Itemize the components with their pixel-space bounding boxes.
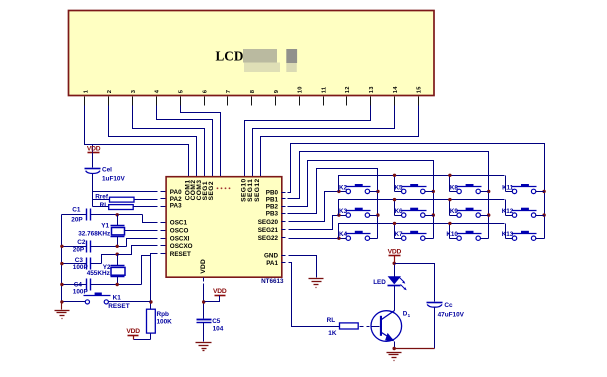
resistor RL 1K (base) <box>327 317 380 337</box>
wire LCD pin5 to IC SEG2 <box>181 106 221 177</box>
wire C1 to OSC1 <box>143 215 167 223</box>
op IC U1 NT6613 body <box>166 177 282 278</box>
wire LCD pin13 to IC SEG10 <box>245 106 371 177</box>
node RESET K1 junction <box>149 300 152 303</box>
svg-text:C3: C3 <box>75 257 84 264</box>
node OSCXO junction <box>116 253 119 256</box>
push button K3 <box>339 208 370 218</box>
capacitor C1 20P <box>62 207 143 224</box>
node Y1 bottom junction <box>116 245 119 248</box>
wire collector to LED <box>394 286 396 311</box>
transistor D1 <box>371 311 411 349</box>
wire SEG20 to row1 <box>282 192 347 222</box>
push button K9 <box>450 208 482 218</box>
svg-text:2: 2 <box>107 90 113 93</box>
node C4 Y2 junction <box>116 283 119 286</box>
LCD display module LCD1 <box>69 11 435 96</box>
svg-text:C2: C2 <box>77 239 86 246</box>
capacitor Cel 1uF10V <box>85 153 126 192</box>
capacitor C3 100P <box>62 257 102 271</box>
svg-text:OSCXO: OSCXO <box>170 243 193 250</box>
push button K11 <box>502 184 536 194</box>
svg-text:9: 9 <box>274 89 280 93</box>
svg-text:47uF10V: 47uF10V <box>438 311 465 318</box>
wire node to OSCXO <box>118 246 167 255</box>
node rail C2 junction <box>60 245 63 248</box>
svg-text:PA0: PA0 <box>170 189 182 196</box>
ground (emitter) <box>387 353 402 361</box>
svg-text:10: 10 <box>298 86 304 93</box>
svg-text:455KHz: 455KHz <box>87 270 110 277</box>
svg-text:100K: 100K <box>157 318 173 325</box>
svg-text:32.768KHz: 32.768KHz <box>78 230 110 237</box>
svg-text:LCD: LCD <box>216 49 244 64</box>
wire VDD to Cc <box>395 264 435 302</box>
VDD power symbol (Rpb) <box>126 328 140 339</box>
capacitor C2 20P <box>62 239 127 253</box>
svg-text:Cel: Cel <box>102 166 112 173</box>
svg-text:20P: 20P <box>73 247 85 254</box>
node rail C3 junction <box>60 262 63 265</box>
svg-text:VDD: VDD <box>87 145 101 152</box>
node column K joints 1 <box>487 190 490 217</box>
wire row 1 feed bus <box>337 174 512 193</box>
node column K joints 3 <box>376 190 379 217</box>
VDD power symbol (IC) <box>205 288 227 302</box>
LCD pin numbers 1-15 <box>83 86 422 93</box>
wire SEG21 to row2 <box>282 216 347 230</box>
svg-text:OSCXI: OSCXI <box>170 235 190 242</box>
node VDD LED junction <box>393 262 396 265</box>
node VDD C5 junction <box>202 300 205 303</box>
wire left ground rail <box>61 215 63 310</box>
wire LCD pin4 to IC SEG1 <box>157 106 213 177</box>
push button K7 <box>394 231 426 241</box>
svg-text:VDD: VDD <box>200 259 207 274</box>
svg-text:NT6613: NT6613 <box>261 278 284 285</box>
svg-text:Cc: Cc <box>444 302 453 309</box>
VDD power symbol (LED) <box>388 248 402 263</box>
svg-text:PB3: PB3 <box>266 211 279 218</box>
svg-text:RL: RL <box>100 202 109 209</box>
IC left pin labels <box>170 189 193 258</box>
push button K8 <box>450 184 482 194</box>
wire LCD pin1 to IC COM1 (VDD net) <box>85 106 189 177</box>
node column K joints 0 <box>542 190 545 217</box>
wire row 2 feed bus <box>337 198 512 217</box>
svg-text:RESET: RESET <box>108 303 129 310</box>
svg-text:1K: 1K <box>328 330 337 337</box>
push button K13 <box>502 231 537 241</box>
push button K2 <box>339 184 370 194</box>
wire RESET pin to rail <box>151 254 167 310</box>
capacitor C4 100P <box>62 279 142 296</box>
ground (oscillator rail) <box>55 303 70 319</box>
blurred label block 2 <box>286 49 297 72</box>
capacitor Cc 47uF10V <box>427 302 465 349</box>
svg-text:PA3: PA3 <box>170 203 182 210</box>
svg-text:PB1: PB1 <box>266 196 279 203</box>
wire VDD rail to PA0 <box>93 192 167 207</box>
node rail C4 junction <box>60 283 63 286</box>
wires button right terminals to columns <box>370 192 545 239</box>
push button K6 <box>394 208 426 218</box>
svg-text:7: 7 <box>226 90 232 93</box>
svg-text:RL: RL <box>327 317 336 324</box>
svg-text:PB2: PB2 <box>266 203 279 210</box>
wire PB0 keypad column bus <box>282 144 545 239</box>
svg-text:RESET: RESET <box>170 251 191 258</box>
svg-text:1: 1 <box>83 89 89 93</box>
resistor Rref <box>93 193 167 202</box>
wire C3 to node <box>102 255 118 264</box>
wire PB1 keypad column bus <box>282 152 489 239</box>
svg-text:OSC1: OSC1 <box>170 220 188 227</box>
svg-text:15: 15 <box>417 86 423 93</box>
LCD label text <box>216 49 244 64</box>
svg-text:PB0: PB0 <box>266 189 279 196</box>
svg-text:SEG21: SEG21 <box>258 227 279 234</box>
resonator Y2 455KHz <box>87 255 125 285</box>
ellipsis dots between SEG2 and SEG10 <box>217 187 231 189</box>
wire LCD pin2 to IC COM2 <box>109 106 197 177</box>
svg-text:PA1: PA1 <box>266 260 278 267</box>
svg-text:OSCO: OSCO <box>170 228 189 235</box>
svg-text:13: 13 <box>369 86 375 93</box>
svg-text:8: 8 <box>250 89 256 93</box>
svg-text:4: 4 <box>155 89 161 93</box>
svg-text:11: 11 <box>321 86 327 93</box>
node OSC1 junction <box>116 213 119 216</box>
svg-text:VDD: VDD <box>126 328 140 335</box>
svg-text:3: 3 <box>131 89 137 93</box>
wire C4 to RESET net <box>142 256 151 285</box>
svg-text:1uF10V: 1uF10V <box>102 175 125 182</box>
svg-text:6: 6 <box>202 89 208 93</box>
svg-text:14: 14 <box>393 86 399 93</box>
wire LCD pin14 to IC SEG11 <box>253 106 395 177</box>
resistor Rpb 100K <box>134 309 173 339</box>
push button K10 <box>446 231 481 241</box>
push button K12 <box>502 208 537 218</box>
LED indicator <box>373 264 407 291</box>
wire LCD pin15 to IC SEG12 <box>261 106 419 177</box>
svg-text:SEG20: SEG20 <box>258 219 279 226</box>
wire SEG22 to row3 <box>282 238 347 239</box>
svg-text:12: 12 <box>345 86 351 93</box>
wire GND pin to ground <box>282 256 317 278</box>
crystal Y1 32.768KHz <box>78 215 124 246</box>
push button K5 <box>394 184 426 194</box>
svg-text:LED: LED <box>373 279 386 286</box>
node rail K1 junction <box>60 300 63 303</box>
svg-text:SEG12: SEG12 <box>254 178 261 202</box>
IC name label NT6613 <box>261 278 284 285</box>
LCD pin stubs 1-15 <box>85 97 419 106</box>
push button K4 <box>339 231 370 241</box>
wire Y1 to OSCO <box>125 230 167 232</box>
capacitor C5 104 <box>197 318 224 342</box>
wire C2 to OSCXI <box>127 239 167 247</box>
svg-text:VDD: VDD <box>388 248 402 255</box>
switch K1 RESET <box>62 293 151 310</box>
ground (IC GND) <box>309 279 324 288</box>
svg-text:K1: K1 <box>113 294 122 301</box>
svg-text:Rpb: Rpb <box>157 311 170 318</box>
svg-text:VDD: VDD <box>213 288 227 295</box>
wire LCD pin3 to IC COM3 <box>133 106 205 177</box>
IC top pin labels COM1-COM3 SEG1-SEG2 SEG10-SEG12 <box>184 178 260 202</box>
svg-text:20P: 20P <box>71 217 83 224</box>
svg-text:C1: C1 <box>72 207 81 214</box>
blurred label block 1 <box>243 49 280 72</box>
wire PB2 keypad column bus <box>282 161 434 239</box>
svg-text:SEG22: SEG22 <box>258 235 279 242</box>
IC bottom pin label VDD <box>200 259 207 274</box>
ground (C5) <box>196 343 212 351</box>
svg-text:GND: GND <box>264 253 278 260</box>
wire PB3 keypad column bus <box>282 169 378 239</box>
svg-text:104: 104 <box>213 326 224 333</box>
svg-text:C5: C5 <box>212 318 221 325</box>
svg-text:5: 5 <box>179 89 185 93</box>
wire PA1 to RL <box>282 263 340 327</box>
resistor RL <box>93 202 167 210</box>
svg-text:Y1: Y1 <box>101 223 109 230</box>
svg-text:SEG2: SEG2 <box>208 181 215 200</box>
node emitter junction <box>393 347 396 350</box>
wire row 3 feed bus <box>337 222 512 240</box>
VDD power symbol (LCD pin1) <box>87 145 101 153</box>
node column K joints 2 <box>432 190 435 217</box>
wire emitter rail <box>393 348 435 350</box>
IC right pin labels <box>258 189 279 267</box>
wire IC VDD pin down <box>203 278 205 319</box>
